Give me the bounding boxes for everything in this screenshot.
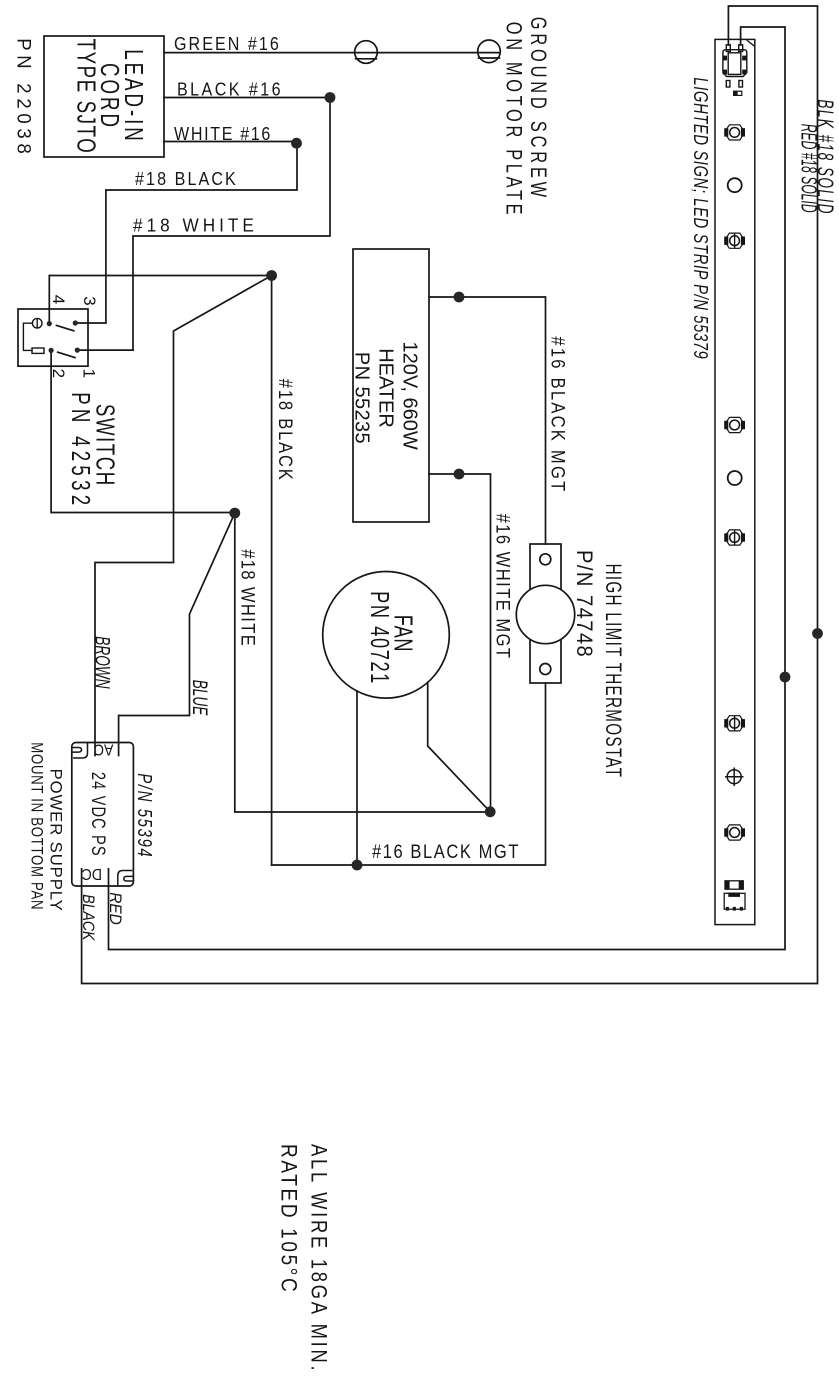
svg-text:P/N 74748: P/N 74748 — [572, 550, 597, 658]
node dot black16 — [325, 92, 336, 103]
thermostat body — [530, 544, 561, 683]
node A dot — [266, 270, 277, 281]
node B dot — [229, 508, 240, 519]
svg-text:BLACK #16: BLACK #16 — [177, 78, 283, 99]
wire #18 black vertical run — [271, 276, 273, 866]
svg-text:24 VDC PS: 24 VDC PS — [87, 772, 110, 857]
svg-text:RED #18 SOLID: RED #18 SOLID — [797, 124, 822, 213]
node dot fan/white mgt — [485, 806, 496, 817]
wire #16 black mgt bottom run — [272, 683, 546, 865]
switch pin 3 contact — [73, 320, 78, 325]
led strip polarity mark — [747, 41, 754, 46]
LED D3 — [724, 417, 745, 432]
svg-text:P/N 55394: P/N 55394 — [133, 773, 156, 858]
connector body — [723, 50, 747, 77]
wire switch pin1 out — [77, 349, 133, 351]
wire GREEN #16 — [164, 52, 500, 54]
connector small part — [734, 91, 742, 95]
LED D5 — [724, 715, 745, 731]
ground screw symbol 1 — [355, 41, 378, 64]
wire switch pin3 out — [75, 322, 106, 324]
switch lever top — [57, 325, 74, 330]
connector tab — [723, 70, 727, 75]
svg-text:3: 3 — [80, 296, 99, 305]
svg-text:#16 BLACK MGT: #16 BLACK MGT — [547, 336, 568, 493]
svg-text:PN 42532: PN 42532 — [66, 392, 96, 509]
connector bottom pin left — [726, 81, 730, 88]
connector tab — [723, 56, 727, 61]
svg-text:ALL WIRE 18GA MIN.: ALL WIRE 18GA MIN. — [306, 1144, 331, 1373]
wire WHITE #16 — [106, 142, 297, 323]
lead-in cord box — [44, 36, 164, 157]
heater box — [353, 249, 429, 522]
svg-text:AC: AC — [94, 740, 114, 758]
wire switch pin2 to node B — [51, 350, 235, 512]
svg-text:#16 WHITE MGT: #16 WHITE MGT — [492, 514, 513, 660]
svg-text:#18 BLACK: #18 BLACK — [135, 168, 238, 189]
wire node A to power supply AC (brown) — [95, 276, 272, 756]
svg-text:GROUND SCREW: GROUND SCREW — [525, 17, 550, 201]
switch lamp wiring — [23, 323, 32, 350]
connector tab — [742, 70, 746, 75]
svg-text:#16 BLACK MGT: #16 BLACK MGT — [372, 841, 520, 862]
svg-text:#18 WHITE: #18 WHITE — [237, 549, 258, 647]
LED D1 — [724, 125, 745, 140]
node dot heater black — [454, 292, 465, 303]
connector inner — [728, 53, 741, 75]
node dot heater white — [454, 469, 465, 480]
LED D4 — [724, 530, 745, 546]
LED hole — [728, 471, 742, 485]
wire switch pin4 to node A — [49, 276, 271, 324]
strip ic chip — [724, 893, 745, 911]
svg-text:1: 1 — [80, 369, 99, 378]
wire ps dc black — [82, 6, 818, 984]
svg-text:RATED 105°C: RATED 105°C — [276, 1144, 301, 1294]
svg-text:GREEN #16: GREEN #16 — [174, 33, 281, 54]
svg-text:#18 WHITE: #18 WHITE — [133, 215, 258, 236]
LED D2 — [724, 233, 745, 249]
svg-text:BLUE: BLUE — [188, 680, 212, 716]
svg-text:PN 55235: PN 55235 — [351, 352, 373, 444]
node dot blk splice — [812, 628, 823, 639]
wire fan right lead — [428, 682, 491, 812]
led strip outline — [715, 39, 755, 924]
svg-text:HIGH LIMIT THERMOSTAT: HIGH LIMIT THERMOSTAT — [600, 564, 625, 779]
fan circle — [323, 572, 450, 699]
svg-text:2: 2 — [49, 369, 68, 378]
LED connector at strip top — [723, 45, 747, 87]
connector tab — [742, 56, 746, 61]
switch contact dots — [47, 320, 80, 353]
ground screw symbol 2 — [478, 40, 501, 63]
svg-text:BROWN: BROWN — [91, 636, 115, 688]
switch lamp — [32, 318, 42, 328]
switch box — [18, 309, 88, 366]
svg-text:ON MOTOR PLATE: ON MOTOR PLATE — [501, 22, 526, 218]
power supply box — [72, 743, 134, 887]
wire fan left lead — [356, 691, 358, 865]
switch resistor — [32, 348, 44, 353]
wire #18 white vertical run — [235, 513, 490, 812]
svg-text:PN 40721: PN 40721 — [365, 591, 394, 685]
switch lever bottom — [58, 352, 75, 357]
svg-text:120V, 660W: 120V, 660W — [398, 341, 420, 449]
svg-text:HEATER: HEATER — [374, 348, 396, 428]
ps notch top-left — [74, 743, 88, 759]
wire node B to power supply AC (blue) — [119, 513, 235, 756]
svg-text:BLACK: BLACK — [78, 894, 96, 941]
strip resistor — [725, 881, 743, 889]
node dot fan/black mgt — [352, 860, 363, 871]
LED hole — [728, 178, 742, 192]
LED D6 — [724, 825, 745, 840]
wire #16 black mgt heater to thermostat — [429, 297, 546, 544]
wire #16 white mgt heater down — [429, 474, 491, 812]
connector bottom pin right — [739, 81, 743, 88]
svg-text:DC: DC — [82, 865, 102, 883]
connector pin top-right — [739, 45, 743, 52]
svg-text:4: 4 — [49, 295, 68, 304]
svg-text:TYPE SJTO: TYPE SJTO — [72, 39, 102, 155]
wire BLACK #16 — [133, 98, 330, 351]
svg-text:POWER SUPPLY: POWER SUPPLY — [46, 769, 65, 912]
switch pin 4 contact — [47, 321, 52, 326]
wire ps dc red — [109, 27, 786, 950]
connector pin top-left — [726, 45, 730, 52]
svg-text:#18 BLACK: #18 BLACK — [275, 379, 296, 482]
node dot red splice — [780, 672, 791, 683]
node dot white16 — [291, 138, 302, 149]
ps notch bottom-right — [118, 871, 132, 887]
svg-text:PN 22038: PN 22038 — [12, 38, 34, 158]
svg-text:LIGHTED SIGN; LED STRIP P/: LIGHTED SIGN; LED STRIP P/N 55379 — [689, 77, 712, 359]
svg-text:WHITE #16: WHITE #16 — [174, 123, 272, 144]
switch pin 2 contact — [49, 348, 54, 353]
svg-text:MOUNT IN BOTTOM PAN: MOUNT IN BOTTOM PAN — [27, 742, 46, 910]
switch pin 1 contact — [75, 348, 80, 353]
svg-text:RED: RED — [106, 892, 125, 925]
LED mount hole crosshair — [725, 768, 744, 787]
